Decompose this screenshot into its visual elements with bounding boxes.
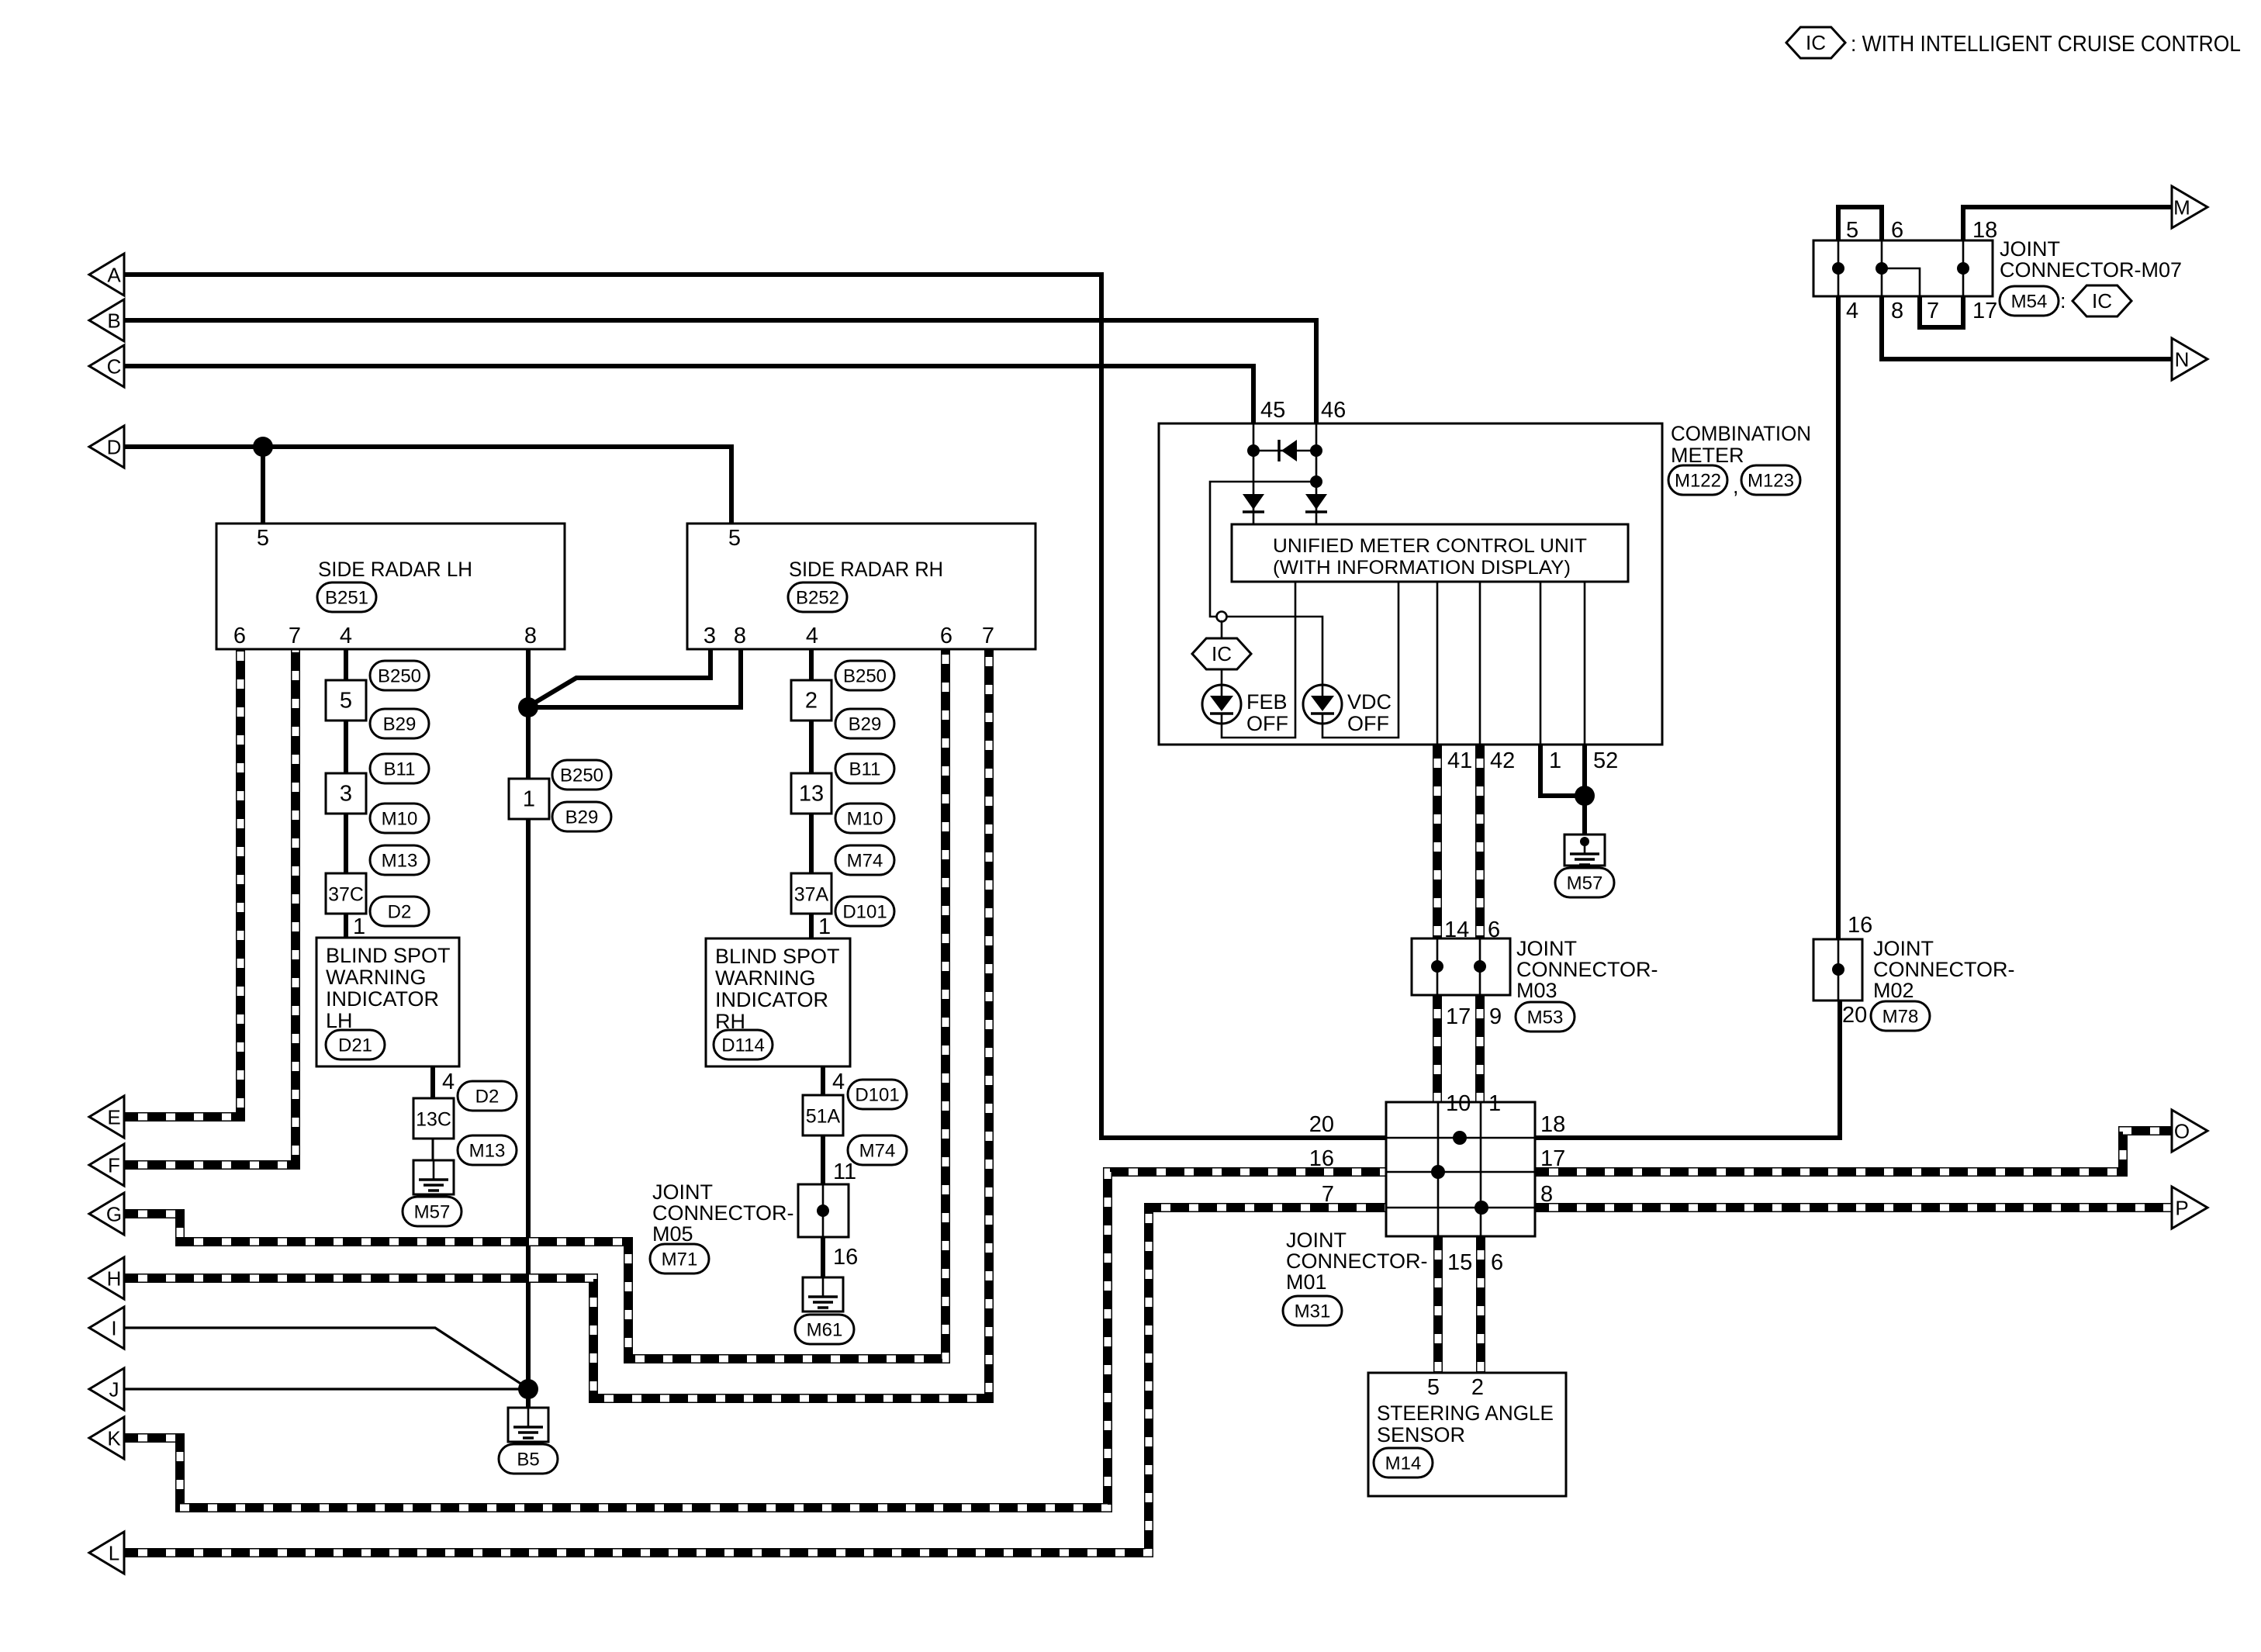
svg-text:D101: D101 [855,1085,899,1106]
svg-text:METER: METER [1671,444,1744,467]
svg-text:5: 5 [1846,218,1858,243]
meter internal signal wires from unified box to meter bottom (thin) [1436,582,1439,745]
svg-text:4: 4 [832,1070,845,1094]
svg-text:D114: D114 [721,1035,765,1056]
wire net-F: F arrow to side radar LH pin 7 (checkered) [124,649,296,1165]
svg-text:51A: 51A [806,1105,841,1127]
svg-text:20: 20 [1842,1003,1867,1028]
joint connector M05 box [798,1184,849,1237]
svg-text:D101: D101 [842,902,887,923]
svg-text:B250: B250 [378,666,421,687]
svg-text:42: 42 [1490,748,1515,773]
svg-text:M10: M10 [382,809,418,830]
svg-text:1: 1 [818,914,831,939]
blind spot warning indicator LH box D21 [316,938,459,1066]
svg-text:B11: B11 [849,759,881,780]
svg-text:M78: M78 [1882,1007,1919,1028]
ground symbol M61 [803,1277,843,1312]
svg-text:C: C [107,355,122,378]
svg-text:D: D [107,436,122,459]
svg-text:JOINT: JOINT [1873,937,1934,960]
wire net-N: M07 pin 8 to N arrow (thick) [1882,296,2172,359]
svg-text:37A: 37A [794,883,829,905]
wire: M01 pin 15 to steering angle sensor pin 5 (checkered) [1433,1236,1443,1373]
wire: M03 pin 9 to joint connector M01 pin 1 (checkered) [1475,995,1485,1102]
wire: D branch down to side radar LH pin 5 [261,447,265,524]
svg-text:N: N [2175,348,2190,372]
FEB OFF lamp return wire [1222,582,1295,738]
svg-text:1: 1 [1488,1091,1501,1116]
svg-text:SIDE RADAR LH: SIDE RADAR LH [318,558,472,581]
svg-text:FEB: FEB [1246,690,1288,714]
right arrows M,N,O,P [2172,186,2207,228]
svg-text:OFF: OFF [1347,712,1389,735]
svg-text:M53: M53 [1527,1007,1564,1028]
svg-text:M54: M54 [2011,292,2048,313]
svg-text:F: F [108,1154,120,1177]
svg-text:M61: M61 [807,1320,843,1341]
wire: side radar RH pin 4 chain down to blind spot warning indicator RH [809,649,814,938]
junction dot: radar ground join (LH pin 8 / RH pin 3 / RH pin 8) [518,697,538,717]
svg-text:INDICATOR: INDICATOR [715,988,828,1011]
svg-text:P: P [2175,1197,2188,1220]
svg-text:BLIND SPOT: BLIND SPOT [326,944,451,967]
svg-text:STEERING ANGLE: STEERING ANGLE [1377,1401,1554,1425]
svg-text:46: 46 [1321,398,1346,423]
svg-text:A: A [107,264,121,287]
svg-text:B29: B29 [383,714,417,735]
svg-text:B5: B5 [517,1450,539,1471]
svg-text:CONNECTOR-: CONNECTOR- [1516,958,1658,981]
wire: side radar LH pin 4 chain down to blind spot warning indicator LH [344,649,348,938]
svg-text:11: 11 [833,1160,856,1184]
svg-text:OFF: OFF [1246,712,1288,735]
svg-text:M02: M02 [1873,979,1914,1002]
svg-text:8: 8 [1891,299,1903,323]
wire net-B: B arrow to combination meter pin 46 (thick) [124,320,1316,423]
connector square 1 on ground wire (B250/B29) [509,779,549,819]
svg-text:18: 18 [1972,218,1997,243]
svg-text:CONNECTOR-: CONNECTOR- [1873,958,2015,981]
svg-text:IC: IC [1212,642,1232,665]
svg-text:4: 4 [442,1070,455,1094]
svg-text:18: 18 [1540,1112,1565,1137]
svg-text:5: 5 [1427,1375,1440,1400]
svg-text:VDC: VDC [1347,690,1392,714]
junction dot on net-D at side radar LH pin 5 branch [253,437,273,457]
svg-text:M05: M05 [652,1222,693,1246]
svg-text:B29: B29 [849,714,882,735]
ground symbol B5 [508,1408,548,1442]
svg-text:M10: M10 [847,809,883,830]
joint connector M01 box (grid) [1386,1102,1535,1236]
svg-text:4: 4 [1846,299,1858,323]
svg-text:INDICATOR: INDICATOR [326,987,439,1011]
svg-text:IC: IC [2092,289,2112,313]
svg-text:M13: M13 [382,851,418,872]
wire: junction down to ground B5 [526,1389,531,1408]
svg-text:WARNING: WARNING [326,966,427,989]
svg-text:8: 8 [524,624,537,648]
svg-text:WARNING: WARNING [715,966,816,990]
svg-text:15: 15 [1447,1250,1472,1275]
svg-text:M123: M123 [1748,471,1794,492]
wire: side radar LH pin 8 down to ground junction [526,649,531,1389]
svg-text:41: 41 [1447,748,1472,773]
svg-text:7: 7 [1927,299,1939,323]
svg-text:6: 6 [1488,918,1500,942]
svg-text:7: 7 [982,624,994,648]
svg-text:CONNECTOR-: CONNECTOR- [1286,1249,1428,1273]
svg-text:6: 6 [233,624,246,648]
wire: M07 jumper pin 7 to pin 17 (thick) [1920,296,1963,327]
open circle node in meter [1217,612,1227,622]
svg-text:16: 16 [1848,913,1872,938]
wire J: J arrow to ground junction (thin) [124,1388,528,1390]
svg-text:IC: IC [1806,31,1826,54]
svg-text:B: B [107,309,120,333]
svg-text:D2: D2 [388,902,412,923]
svg-text:37C: 37C [328,883,364,905]
svg-text:D2: D2 [475,1087,500,1108]
IC hexagon inside meter [1192,638,1251,669]
svg-text:16: 16 [833,1245,858,1270]
joint connector M07 box [1813,240,1993,296]
svg-text:3: 3 [704,624,716,648]
svg-text:M14: M14 [1385,1453,1422,1474]
wire from open circle to IC hexagon and FEB OFF lamp [1221,621,1223,685]
svg-text:5: 5 [340,688,352,713]
svg-text:JOINT: JOINT [2000,237,2060,261]
wire net-C: C arrow to combination meter pin 45 (thick) [124,366,1253,423]
svg-text:JOINT: JOINT [1286,1229,1347,1252]
svg-text:1: 1 [1549,748,1561,773]
svg-text:UNIFIED METER CONTROL UNIT: UNIFIED METER CONTROL UNIT [1273,535,1587,557]
side radar LH pin 4 chain connector squares and refs [326,680,366,721]
svg-text:B29: B29 [565,807,599,828]
svg-text:4: 4 [806,624,818,648]
wire: M01 pin 6 to steering angle sensor pin 2 (checkered) [1476,1236,1485,1373]
svg-text:52: 52 [1593,748,1618,773]
svg-text:B251: B251 [325,588,368,609]
svg-text:H: H [107,1267,122,1291]
wire: M07 jumper pin 5 to pin 6 (thick) [1838,207,1882,240]
ground symbol M57 below combination meter [1564,835,1605,866]
wire: M01 pin 17 to O arrow (checkered) [1535,1131,2172,1172]
meter internal branch from 46 line to IC lamp circuit [1310,475,1322,488]
svg-text:17: 17 [1972,299,1997,323]
FEB OFF indicator lamp [1202,685,1241,724]
steering angle sensor box M14 [1368,1373,1566,1496]
svg-text:2: 2 [805,688,818,713]
junction dot: ground B5 join of I and J wires [518,1379,538,1399]
svg-text:M74: M74 [859,1141,896,1162]
svg-text:13C: 13C [416,1108,451,1130]
wire: combination meter pin 42 to joint connector M03 pin 6 (checkered) [1475,745,1485,938]
svg-text:M: M [2173,196,2190,219]
svg-text:6: 6 [1491,1250,1503,1275]
IC hexagon for M07 [2073,285,2131,316]
svg-text:JOINT: JOINT [652,1180,713,1204]
svg-text:M71: M71 [662,1249,698,1270]
wire net-K: K arrow to joint connector M01 pin 16 (checkered) [124,1172,1386,1508]
wire net-M: M07 pin 18 to M arrow (thick) [1963,207,2172,240]
meter internal diode link between 45 and 46 lines [1253,450,1316,452]
svg-text:1: 1 [523,786,535,811]
svg-text:I: I [111,1317,116,1340]
wire net-A: A arrow to joint connector M01 pin 20 (thick) [124,275,1386,1138]
svg-text::: : [2060,289,2066,313]
side radar LH box B251 [216,524,565,649]
svg-text:,: , [1733,475,1739,498]
svg-text:K: K [107,1427,121,1450]
svg-text:3: 3 [340,781,352,806]
svg-text:CONNECTOR-M07: CONNECTOR-M07 [2000,258,2182,282]
junction dot: meter pins 1 and 52 join to ground M57 [1575,786,1595,806]
wire net-E: E arrow to side radar LH pin 6 (checkered) [124,649,240,1117]
svg-text:M122: M122 [1675,471,1721,492]
svg-text:7: 7 [1322,1182,1334,1207]
wire net-D: D arrow to side radar LH pin 5 and RH pin 5 (thick) [124,447,731,524]
wire net-H: H arrow to side radar RH pin 7 (checkered) [124,649,989,1398]
svg-text:B252: B252 [796,588,839,609]
VDC OFF indicator lamp [1303,685,1342,724]
svg-text:16: 16 [1309,1146,1334,1171]
meter internal wires from pins 45/46 (thin) [1253,423,1255,524]
svg-text:B11: B11 [384,759,416,780]
wire: M02 pin 16 up to M07 pin 4 (thick) [1836,299,1841,937]
svg-text:B250: B250 [560,766,603,786]
joint connector M02 box [1813,939,1862,1001]
wire: M01 pin 8 to P arrow (checkered) [1535,1203,2172,1212]
wire net-L: L arrow to joint connector M01 pin 7 (checkered) [124,1208,1386,1553]
left arrows A-L [89,254,124,295]
wire: side radar RH pin 8 to ground junction [528,649,741,707]
wire net-A right: M01 pin 18 to joint connector M02 (thick) [1535,1003,1840,1138]
svg-text:M01: M01 [1286,1270,1327,1294]
svg-text:1: 1 [353,914,365,939]
wire: connector 13C to ground M57 (thin) [432,1118,434,1160]
svg-text:J: J [109,1378,119,1401]
svg-text:10: 10 [1446,1091,1471,1116]
side radar RH pin 4 chain connector squares and refs [791,680,831,721]
svg-text:M31: M31 [1295,1301,1331,1322]
wire: side radar RH pin 3 to ground junction [528,649,710,707]
svg-text:8: 8 [1540,1182,1553,1207]
wire: combination meter pin 52 to ground M57 (thick) [1582,745,1587,835]
svg-text:G: G [106,1203,122,1226]
svg-text:7: 7 [289,624,301,648]
svg-text:8: 8 [734,624,746,648]
svg-text:5: 5 [728,526,741,551]
svg-text:M13: M13 [469,1141,506,1162]
svg-text:M57: M57 [1567,873,1603,894]
svg-text:M57: M57 [414,1202,451,1223]
svg-text:5: 5 [257,526,269,551]
svg-text:17: 17 [1446,1004,1471,1029]
wire: M03 pin 17 to joint connector M01 pin 10 (checkered) [1433,995,1442,1102]
wire from open circle to VDC OFF lamp [1226,617,1322,685]
svg-text:6: 6 [1891,218,1903,243]
svg-text:CONNECTOR-: CONNECTOR- [652,1201,794,1225]
wire: BSW indicator RH pin 4 to 51A and joint connector M05 [821,1066,825,1184]
wire: combination meter pin 1 to ground junction (thick) [1540,745,1585,796]
svg-text:13: 13 [799,781,824,806]
wire net-G: G arrow to side radar RH pin 6 (checkered) [124,649,946,1359]
combination meter box M122/M123 [1159,423,1662,745]
svg-text:SIDE RADAR RH: SIDE RADAR RH [789,558,943,581]
VDC OFF lamp return wire [1322,582,1398,738]
wire: M05 pin 16 to ground M61 [821,1237,825,1277]
diode on 46 line (pointing down) [1305,494,1327,510]
svg-text:: WITH INTELLIGENT CRUISE CONT: : WITH INTELLIGENT CRUISE CONTROL [1851,32,2241,57]
diode on 45 line (pointing down) [1243,494,1264,510]
svg-text:L: L [109,1542,119,1565]
svg-text:M03: M03 [1516,979,1557,1002]
svg-text:M74: M74 [847,851,883,872]
svg-text:6: 6 [940,624,952,648]
svg-text:20: 20 [1309,1112,1334,1137]
svg-text:9: 9 [1489,1004,1502,1029]
svg-text:4: 4 [340,624,352,648]
blind spot warning indicator RH box D114 [706,938,850,1066]
svg-text:COMBINATION: COMBINATION [1671,422,1811,445]
svg-text:BLIND SPOT: BLIND SPOT [715,945,840,968]
svg-text:E: E [107,1106,120,1129]
legend: IC with intelligent cruise control [1786,27,1845,58]
side radar RH box B252 [687,524,1035,649]
svg-text:17: 17 [1540,1146,1565,1171]
svg-text:2: 2 [1471,1375,1484,1400]
svg-text:B250: B250 [843,666,887,687]
svg-text:JOINT: JOINT [1516,937,1577,960]
wire I: I arrow to ground junction (thin) [124,1328,527,1388]
svg-text:45: 45 [1260,398,1285,423]
svg-text:(WITH INFORMATION DISPLAY): (WITH INFORMATION DISPLAY) [1273,557,1571,579]
svg-text:D21: D21 [338,1035,372,1056]
svg-text:SENSOR: SENSOR [1377,1423,1465,1446]
wire: combination meter pin 41 to joint connector M03 pin 14 (checkered) [1433,745,1442,938]
svg-text:14: 14 [1444,918,1469,942]
joint connector M03 box [1412,938,1510,995]
svg-text:O: O [2174,1120,2190,1143]
wire: BSW indicator LH pin 4 to connector 13C [430,1066,435,1118]
